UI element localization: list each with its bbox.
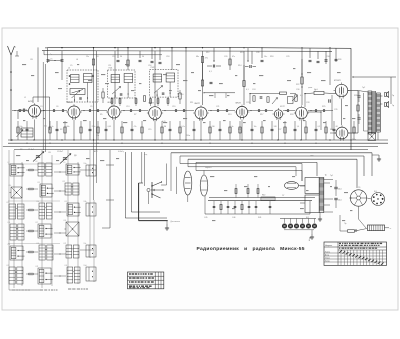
tube V7 diode bbox=[273, 108, 285, 120]
svg-text:С20: С20 bbox=[224, 56, 227, 58]
svg-text:R40: R40 bbox=[262, 195, 265, 197]
capacitor C7 bbox=[61, 60, 64, 61]
capacitor C23 decoupling bbox=[206, 80, 213, 86]
output transformer terminal board bbox=[368, 133, 376, 141]
wire bus vertical drops bbox=[38, 47, 336, 140]
coil/switch L17 bbox=[36, 222, 53, 238]
tube V1 6И1П bbox=[27, 101, 43, 119]
component value labels bbox=[20, 52, 377, 225]
dial lamp HL1 bbox=[285, 182, 306, 190]
antenna W1 bbox=[8, 46, 20, 141]
tube V12 phono preamp bbox=[184, 167, 192, 202]
ground transformer bbox=[318, 213, 322, 222]
wire pickup nest outer elbow bbox=[125, 152, 167, 218]
switch S2 pickup changeover bbox=[147, 181, 164, 204]
svg-text:Ш2: Ш2 bbox=[306, 217, 309, 219]
tube V3 6К4П bbox=[106, 102, 122, 120]
svg-text:С23: С23 bbox=[246, 102, 249, 104]
svg-text:С10: С10 bbox=[112, 56, 115, 58]
resistor R19 detector load bbox=[301, 59, 303, 88]
tube V6 6Н2П bbox=[235, 102, 250, 119]
phono passive parts bbox=[213, 201, 272, 214]
svg-text:L13: L13 bbox=[7, 202, 10, 204]
svg-text:L14: L14 bbox=[37, 201, 40, 203]
capacitor C12 bbox=[117, 60, 120, 61]
fuse F1 bbox=[355, 229, 368, 232]
power transformer T1 secondary winding bbox=[319, 178, 324, 213]
svg-text:R25: R25 bbox=[322, 106, 325, 108]
label additional panel bbox=[171, 221, 181, 223]
svg-text:С18: С18 bbox=[166, 56, 169, 58]
capacitor C26 with junction bbox=[245, 60, 256, 68]
coil/switch L23 bbox=[36, 266, 53, 284]
wire tube cathode drops bbox=[35, 120, 302, 141]
capacitor C25 bbox=[261, 60, 264, 61]
caption title bbox=[197, 246, 305, 252]
oscillator padder coil L6a bbox=[69, 75, 94, 94]
svg-text:R1: R1 bbox=[20, 129, 22, 131]
svg-text:27к: 27к bbox=[205, 58, 208, 60]
svg-text:C16: C16 bbox=[148, 65, 151, 67]
svg-text:L10: L10 bbox=[9, 185, 12, 187]
resistor R13 second stage bbox=[201, 63, 203, 86]
wire transformer taps bbox=[300, 175, 333, 213]
svg-text:1к: 1к bbox=[52, 126, 54, 128]
svg-text:ПЧ1: ПЧ1 bbox=[109, 68, 113, 70]
svg-text:6И1П: 6И1П bbox=[28, 101, 34, 103]
capacitor C52 electrolytic bbox=[334, 198, 341, 208]
svg-text:С3: С3 bbox=[40, 106, 42, 108]
voltage mode table bbox=[324, 242, 387, 265]
svg-text:20,0: 20,0 bbox=[338, 189, 342, 191]
tube V4 6Х2П bbox=[147, 103, 163, 121]
svg-text:L23: L23 bbox=[36, 266, 39, 268]
wire AVC bus 3 bbox=[3, 145, 378, 147]
wire pickup nest inner drops bbox=[142, 152, 145, 186]
svg-text:30: 30 bbox=[120, 56, 122, 58]
svg-text:Тр2: Тр2 bbox=[362, 87, 365, 89]
svg-text:0,1: 0,1 bbox=[209, 71, 212, 73]
svg-text:R17: R17 bbox=[260, 114, 263, 116]
svg-text:5,1к: 5,1к bbox=[182, 126, 185, 128]
capacitor C17 bbox=[151, 61, 154, 62]
power transformer T1 primary section 2 bbox=[305, 195, 319, 213]
wire long run 4 bbox=[196, 162, 317, 176]
svg-text:68к: 68к bbox=[196, 56, 199, 58]
svg-text:L7: L7 bbox=[8, 162, 10, 164]
output transformer T2 secondary bbox=[377, 93, 381, 132]
wire power wiring bbox=[340, 198, 371, 231]
resistor R12 bbox=[201, 57, 208, 63]
svg-text:51к: 51к bbox=[44, 126, 47, 128]
svg-text:85в: 85в bbox=[96, 135, 99, 137]
svg-text:6Н2П: 6Н2П bbox=[195, 103, 201, 105]
svg-text:С15: С15 bbox=[148, 129, 151, 131]
coil/switch L9 bbox=[64, 162, 81, 175]
wire output couplings bbox=[305, 91, 358, 134]
phono upper passives bbox=[235, 184, 259, 198]
value labels passive row bbox=[20, 126, 338, 128]
svg-text:Экран: Экран bbox=[325, 257, 330, 259]
svg-text:С9: С9 bbox=[90, 106, 92, 108]
svg-text:51к: 51к bbox=[20, 126, 23, 128]
wire chassis bus 2 bbox=[8, 142, 388, 144]
svg-text:R14: R14 bbox=[238, 65, 241, 67]
svg-text:Лампа: Лампа bbox=[325, 251, 330, 253]
svg-text:Доп.панель: Доп.панель bbox=[171, 221, 181, 223]
svg-text:L22: L22 bbox=[7, 265, 10, 267]
svg-text:L17: L17 bbox=[36, 222, 39, 224]
capacitor C22 with junction bbox=[207, 60, 221, 73]
svg-text:68н: 68н bbox=[67, 126, 70, 128]
wire AF coupling line bbox=[203, 92, 235, 98]
svg-text:68: 68 bbox=[336, 126, 338, 128]
wire grid chain with series capacitors bbox=[12, 109, 333, 112]
resistor R45 bbox=[348, 230, 355, 233]
loudspeaker LS2 bbox=[384, 102, 395, 108]
svg-text:20,0: 20,0 bbox=[338, 200, 342, 202]
svg-text:3к: 3к bbox=[232, 126, 234, 128]
wire phono feed line 1 bbox=[180, 164, 302, 182]
tube V10 6П14П output bbox=[334, 125, 349, 140]
mains plug X2 bbox=[368, 225, 392, 231]
svg-text:С2-9кГ: С2-9кГ bbox=[57, 151, 63, 153]
svg-text:1,0: 1,0 bbox=[297, 126, 300, 128]
svg-text:L15: L15 bbox=[65, 201, 68, 203]
tube socket rear view bbox=[372, 193, 385, 206]
svg-text:L11: L11 bbox=[38, 182, 41, 184]
svg-text:С45: С45 bbox=[204, 217, 207, 219]
wire phono loop bbox=[196, 171, 315, 215]
svg-text:300в: 300в bbox=[352, 139, 356, 141]
ground right side bbox=[372, 155, 381, 161]
coil/switch L18 bbox=[64, 220, 80, 236]
wire chassis bus 1 bbox=[8, 139, 388, 141]
svg-text:S1a: S1a bbox=[84, 163, 87, 165]
svg-text:R22: R22 bbox=[296, 84, 299, 86]
capacitor C41 tone bbox=[358, 91, 361, 102]
oscillator coil unit L5 L6 (screened) bbox=[67, 70, 98, 102]
svg-text:Анод: Анод bbox=[325, 253, 329, 256]
svg-text:С19: С19 bbox=[172, 106, 175, 108]
svg-text:L9: L9 bbox=[64, 162, 66, 164]
output transformer T2 core bbox=[373, 91, 375, 134]
wire top HT bus upper bbox=[48, 47, 352, 48]
svg-text:S1b: S1b bbox=[84, 201, 87, 203]
resistor R6 between cans bbox=[102, 88, 104, 103]
svg-text:C11: C11 bbox=[108, 65, 111, 67]
coil/switch S1a bbox=[84, 163, 97, 176]
svg-text:R7: R7 bbox=[134, 114, 136, 116]
capacitor C32 bbox=[317, 61, 320, 62]
svg-text:Л7: Л7 bbox=[282, 195, 284, 197]
svg-text:240: 240 bbox=[274, 126, 277, 128]
tube V8 triode bbox=[294, 105, 309, 120]
coil/switch L22 bbox=[7, 265, 24, 284]
svg-text:0,05: 0,05 bbox=[108, 126, 112, 128]
svg-text:6К4П: 6К4П bbox=[68, 102, 74, 104]
svg-text:0,5: 0,5 bbox=[300, 95, 303, 97]
resistor R30 grid stopper bbox=[304, 89, 336, 95]
loudspeaker LS1 bbox=[384, 92, 395, 98]
svg-text:L5: L5 bbox=[68, 68, 70, 70]
svg-text:10н: 10н bbox=[264, 56, 267, 58]
matrix bottom labels bbox=[12, 289, 88, 291]
wire oscillator verticals bbox=[43, 62, 45, 152]
svg-text:R12: R12 bbox=[206, 52, 209, 54]
svg-text:Ш1: Ш1 bbox=[374, 191, 377, 193]
resistors under IF cans bbox=[111, 97, 169, 106]
coil/switch S1c bbox=[84, 243, 97, 257]
coil/switch S1d bbox=[84, 265, 97, 281]
svg-text:сеть: сеть bbox=[310, 155, 314, 157]
wire long run 2 bbox=[180, 156, 364, 176]
coil L2 input with tuning arrow bbox=[17, 128, 34, 137]
wire pickup nest shielded cable bbox=[139, 183, 168, 221]
IF transformer IFT1 (screened) bbox=[108, 70, 135, 98]
svg-text:Пр: Пр bbox=[344, 223, 346, 225]
svg-text:L12: L12 bbox=[63, 181, 66, 183]
svg-text:47к: 47к bbox=[134, 126, 137, 128]
coil/switch L10 bbox=[9, 185, 23, 198]
capacitor C4 bbox=[47, 59, 53, 62]
svg-text:Ч-9кГц: Ч-9кГц bbox=[118, 151, 125, 153]
coil/switch L11 bbox=[38, 182, 54, 197]
svg-text:R15: R15 bbox=[240, 52, 243, 54]
wire switch contact feeds bbox=[160, 164, 176, 198]
svg-text:R24: R24 bbox=[330, 129, 333, 131]
svg-text:С34: С34 bbox=[326, 56, 329, 58]
svg-text:6П14П: 6П14П bbox=[334, 80, 341, 82]
tube V5 6Н2П bbox=[193, 103, 209, 121]
wire converter corner link bbox=[33, 97, 50, 130]
svg-text:Напряж.: Напряж. bbox=[325, 245, 333, 247]
resistor R40 wirewound bbox=[261, 195, 275, 201]
svg-text:L19: L19 bbox=[8, 244, 11, 246]
svg-text:R10: R10 bbox=[180, 94, 183, 96]
svg-text:L20: L20 bbox=[37, 243, 40, 245]
svg-text:С1-9кГ: С1-9кГ bbox=[28, 149, 34, 151]
coil/switch L12 bbox=[63, 181, 80, 195]
svg-text:Тр1: Тр1 bbox=[330, 175, 333, 177]
svg-text:C30: C30 bbox=[296, 89, 299, 91]
svg-text:0,5: 0,5 bbox=[318, 126, 321, 128]
coil/switch S1b bbox=[84, 201, 97, 216]
svg-text:30: 30 bbox=[142, 56, 144, 58]
svg-text:~: ~ bbox=[390, 227, 392, 231]
coil/switch L16 bbox=[8, 222, 25, 240]
svg-text:2н: 2н bbox=[50, 59, 52, 61]
coil/switch L19 ДВ bbox=[8, 244, 25, 260]
svg-text:C24: C24 bbox=[252, 89, 255, 91]
svg-text:гром.: гром. bbox=[308, 87, 313, 89]
svg-text:10к: 10к bbox=[254, 126, 257, 128]
capacitor C18 bbox=[159, 62, 162, 63]
svg-text:Катод: Катод bbox=[325, 260, 330, 262]
resistor R10 between cans bbox=[143, 96, 145, 103]
svg-text:ПЧ2: ПЧ2 bbox=[151, 67, 155, 69]
svg-text:звукосн.: звукосн. bbox=[205, 167, 213, 169]
svg-text:L18: L18 bbox=[64, 220, 67, 222]
svg-text:С26: С26 bbox=[256, 52, 259, 54]
wire top HT bus third bbox=[44, 51, 162, 55]
svg-text:R11: R11 bbox=[190, 102, 193, 104]
wire long run 3 bbox=[188, 159, 357, 188]
wire pickup nest mid elbow bbox=[131, 152, 160, 212]
wire phono feed line 2 bbox=[188, 167, 296, 176]
svg-text:S1d: S1d bbox=[84, 265, 87, 267]
wire top HT bus lower bbox=[42, 50, 332, 53]
svg-text:С27: С27 bbox=[278, 129, 281, 131]
svg-text:С46: С46 bbox=[232, 217, 235, 219]
svg-text:47к: 47к bbox=[232, 56, 235, 58]
svg-text:6Н2П: 6Н2П bbox=[236, 102, 242, 104]
svg-text:R5: R5 bbox=[100, 114, 102, 116]
wire long run 1 bbox=[171, 153, 372, 191]
svg-text:R16: R16 bbox=[238, 129, 241, 131]
bus junction dots bbox=[11, 139, 351, 143]
tiny value annotations bbox=[16, 64, 355, 221]
tube socket bottom view (rectifier) bbox=[350, 190, 366, 206]
wire speaker feed line bbox=[352, 76, 396, 104]
svg-text:С13: С13 bbox=[126, 106, 129, 108]
wire matrix ties bbox=[9, 169, 96, 290]
capacitor C42 tone bbox=[358, 114, 361, 124]
resistor R33 cathode bias bbox=[357, 105, 359, 111]
coil/switch L14 bbox=[37, 201, 53, 219]
anode cathode passive row bbox=[17, 121, 355, 140]
resistor R16 second stage bbox=[243, 65, 245, 87]
wire band switch rails bbox=[8, 150, 94, 290]
svg-text:15к: 15к bbox=[86, 56, 89, 58]
resistor R8 bbox=[127, 60, 129, 66]
stamp table bbox=[128, 272, 164, 289]
coil/switch L8 bbox=[36, 161, 53, 176]
wire secondary lead bbox=[364, 93, 369, 131]
socket X1 jack row bbox=[280, 219, 317, 230]
svg-text:R18: R18 bbox=[270, 56, 273, 58]
svg-text:L1: L1 bbox=[24, 97, 26, 99]
ground pickup nest bbox=[165, 221, 169, 231]
tube V2 6К4П bbox=[66, 102, 82, 120]
svg-text:R4: R4 bbox=[96, 56, 98, 58]
wire speaker leads bbox=[358, 91, 383, 140]
svg-text:R41: R41 bbox=[258, 217, 261, 219]
svg-text:220к: 220к bbox=[92, 126, 96, 128]
svg-text:6Х2П: 6Х2П bbox=[280, 106, 285, 108]
output transformer T2 primary bbox=[368, 91, 372, 134]
svg-text:L24: L24 bbox=[65, 265, 68, 267]
volume potentiometer R22 bbox=[292, 95, 298, 102]
svg-text:осц.: осц. bbox=[144, 154, 148, 156]
svg-text:0,1: 0,1 bbox=[246, 89, 249, 91]
svg-text:R2: R2 bbox=[60, 129, 62, 131]
capacitor C33a bbox=[325, 60, 328, 61]
svg-text:Л9: Л9 bbox=[358, 187, 360, 189]
svg-text:L21: L21 bbox=[64, 243, 67, 245]
svg-text:R20: R20 bbox=[290, 114, 293, 116]
svg-text:2н: 2н bbox=[50, 54, 52, 56]
coil/switch L15 bbox=[65, 201, 81, 216]
svg-text:S1c: S1c bbox=[84, 243, 87, 245]
svg-text:L3: L3 bbox=[66, 102, 68, 104]
svg-text:Радиоприемник и радиола Минск-: Радиоприемник и радиола Минск-55 bbox=[197, 246, 305, 252]
svg-text:С6: С6 bbox=[56, 106, 58, 108]
capacitor C31 bbox=[309, 60, 312, 61]
coil/switch L7 КВ bbox=[8, 162, 25, 176]
tube V9 6П14П output bbox=[334, 80, 350, 99]
wire top-right drop to output stage bbox=[350, 48, 352, 150]
coil/switch L20 bbox=[37, 243, 54, 260]
svg-text:L6: L6 bbox=[76, 59, 78, 61]
coil/switch L21 bbox=[64, 243, 80, 258]
IF transformer IFT2 (screened) bbox=[150, 70, 178, 98]
ground socket row bbox=[310, 230, 314, 239]
wire screen rails down bbox=[94, 140, 115, 228]
resistor R11 before detector bbox=[179, 90, 181, 104]
capacitor C2 antenna coupling bbox=[18, 109, 27, 120]
svg-text:C5: C5 bbox=[70, 65, 72, 67]
svg-text:130: 130 bbox=[212, 126, 215, 128]
resistor R3 bbox=[92, 59, 94, 65]
power transformer T1 primary section 1 bbox=[305, 178, 319, 194]
capacitor C51 electrolytic bbox=[334, 180, 341, 196]
svg-text:R28: R28 bbox=[354, 95, 357, 97]
coil/switch L13 СВ bbox=[7, 202, 25, 219]
svg-text:С29: С29 bbox=[286, 56, 289, 58]
svg-text:С33: С33 bbox=[306, 102, 309, 104]
capacitor C40 coupling bbox=[329, 94, 331, 103]
svg-text:250в: 250в bbox=[186, 135, 190, 137]
pickup M1 phono head bbox=[200, 171, 208, 197]
coil/switch L24 bbox=[65, 265, 81, 283]
variable capacitor C1a tuning gang bbox=[28, 149, 44, 162]
resistor R15 bbox=[229, 59, 231, 65]
svg-text:L16: L16 bbox=[8, 222, 11, 224]
wire AVC bus 4 bbox=[14, 149, 368, 151]
svg-text:R13: R13 bbox=[228, 114, 231, 116]
svg-text:С21: С21 bbox=[216, 106, 219, 108]
wire cap link C4-C7 bbox=[48, 60, 62, 61]
svg-text:L8: L8 bbox=[36, 161, 38, 163]
variable capacitor C1b tuning gang bbox=[57, 151, 71, 164]
capacitor C34a bbox=[335, 59, 338, 60]
detector components strip bbox=[249, 92, 296, 104]
page mark bbox=[309, 238, 312, 242]
capacitor C14 bbox=[139, 60, 142, 61]
svg-text:С35: С35 bbox=[334, 109, 337, 111]
svg-text:R26: R26 bbox=[338, 59, 341, 61]
